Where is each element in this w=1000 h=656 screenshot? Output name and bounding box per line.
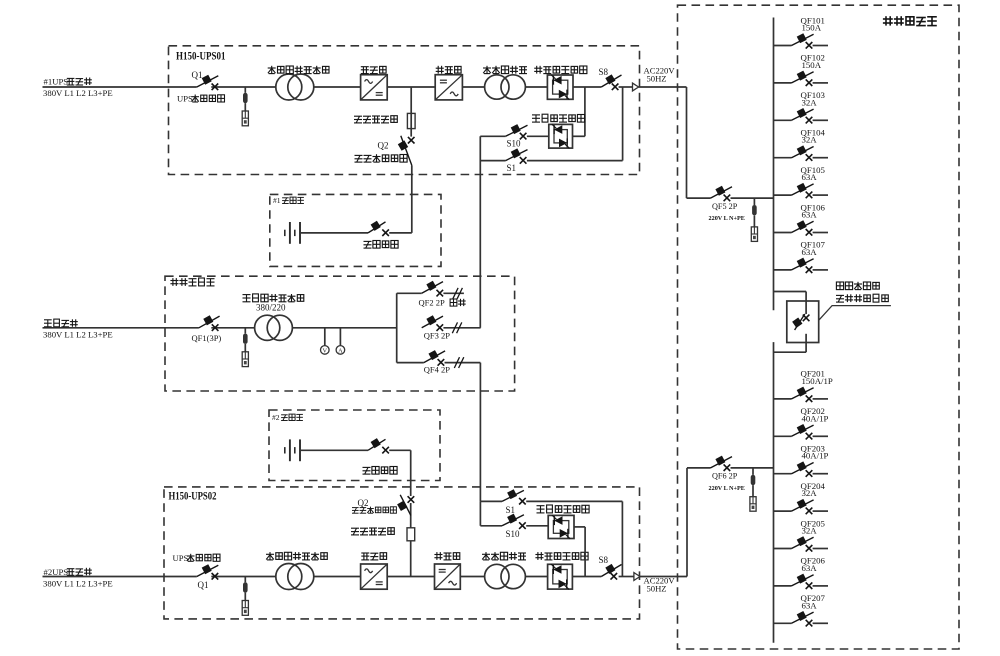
svg-text:32A: 32A	[802, 97, 818, 107]
svg-text:50HZ: 50HZ	[647, 583, 667, 593]
svg-text:UPS: UPS	[177, 94, 193, 104]
svg-text:QF5 2P: QF5 2P	[712, 202, 738, 211]
svg-text:QF4 2P: QF4 2P	[424, 365, 450, 375]
svg-text:Q2: Q2	[358, 498, 369, 508]
svg-text:#1: #1	[273, 196, 281, 205]
svg-text:QF1(3P): QF1(3P)	[192, 333, 222, 343]
svg-text:380V L1 L2 L3+PE: 380V L1 L2 L3+PE	[43, 329, 113, 339]
svg-text:S10: S10	[506, 529, 521, 539]
svg-text:H150-UPS02: H150-UPS02	[169, 491, 217, 503]
svg-text:220V L N+PE: 220V L N+PE	[709, 485, 745, 492]
svg-text:63A: 63A	[802, 172, 818, 182]
svg-text:S1: S1	[507, 163, 517, 173]
svg-text:32A: 32A	[802, 135, 818, 145]
svg-text:63A: 63A	[802, 563, 818, 573]
svg-text:40A/1P: 40A/1P	[802, 413, 829, 423]
svg-text:A: A	[338, 348, 343, 355]
svg-text:150A: 150A	[802, 60, 822, 70]
svg-text:Q2: Q2	[378, 140, 389, 150]
svg-text:220V L N+PE: 220V L N+PE	[709, 215, 745, 222]
svg-text:QF3 2P: QF3 2P	[424, 331, 450, 341]
svg-text:S10: S10	[507, 138, 522, 148]
svg-text:H150-UPS01: H150-UPS01	[176, 51, 226, 63]
svg-text:380V L1 L2 L3+PE: 380V L1 L2 L3+PE	[43, 578, 113, 588]
svg-text:S8: S8	[599, 67, 609, 77]
svg-text:63A: 63A	[802, 247, 818, 257]
svg-text:63A: 63A	[802, 210, 818, 220]
svg-text:UPS: UPS	[173, 553, 189, 563]
svg-text:S1: S1	[506, 505, 516, 515]
svg-text:#2UPS: #2UPS	[44, 567, 69, 577]
svg-text:50HZ: 50HZ	[647, 73, 667, 83]
svg-text:380/220: 380/220	[256, 302, 286, 312]
svg-text:Q1: Q1	[192, 70, 203, 80]
svg-text:#2: #2	[272, 413, 280, 422]
svg-text:40A/1P: 40A/1P	[802, 451, 829, 461]
svg-text:63A: 63A	[802, 600, 818, 610]
svg-text:32A: 32A	[802, 488, 818, 498]
svg-text:150A: 150A	[802, 23, 822, 33]
svg-text:380V L1 L2 L3+PE: 380V L1 L2 L3+PE	[43, 88, 113, 98]
svg-text:V: V	[323, 348, 328, 355]
svg-text:QF6 2P: QF6 2P	[712, 472, 738, 481]
svg-text:QF2 2P: QF2 2P	[419, 298, 445, 308]
svg-text:150A/1P: 150A/1P	[802, 376, 833, 386]
svg-text:S8: S8	[599, 555, 609, 565]
svg-text:Q1: Q1	[198, 580, 209, 590]
svg-text:#1UPS: #1UPS	[44, 77, 69, 87]
svg-text:32A: 32A	[802, 526, 818, 536]
